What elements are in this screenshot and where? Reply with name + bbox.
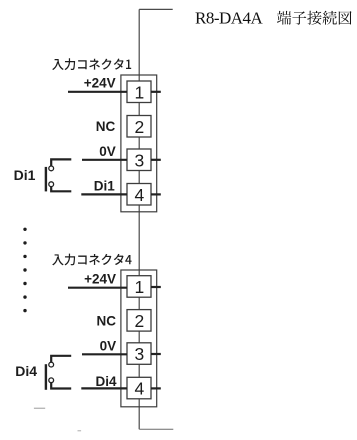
label "入力コネクタ1": [52, 58, 131, 70]
switch contact Di4: upper terminal circle: [49, 362, 54, 367]
svg-text:NC: NC: [96, 119, 116, 134]
svg-text:1: 1: [135, 82, 145, 102]
wire stub right of terminal 3 J4: [151, 353, 161, 355]
svg-text:Di1: Di1: [94, 178, 116, 193]
wire stub right of terminal 4 J4: [151, 387, 161, 389]
svg-text:4: 4: [135, 185, 145, 205]
svg-text:NC: NC: [97, 314, 117, 329]
wire stub right of terminal 3 J1: [151, 159, 161, 161]
wire Di1 to terminal 4 J1: [81, 193, 127, 195]
connector J4 outline: [121, 270, 157, 407]
wire: upper contact arm: [51, 159, 71, 166]
svg-text:1: 1: [135, 277, 145, 297]
terminal 4 of connector J1: [127, 184, 151, 206]
switch contact Di1: lower terminal circle: [49, 182, 54, 187]
scan artifact mark bottom: [78, 430, 82, 431]
switch contact Di4: actuator bar: [45, 364, 47, 390]
continuation dot 7: [23, 309, 26, 312]
label "入力コネクタ4": [52, 254, 131, 266]
svg-text:4: 4: [135, 379, 145, 399]
wire 0V to terminal 3 J1: [82, 159, 127, 161]
wire: lower contact arm: [51, 187, 71, 192]
continuation dot 5: [23, 282, 26, 285]
wire Di4 to terminal 4 J4: [81, 387, 127, 389]
wire: lower contact arm: [51, 383, 71, 389]
wire 0V to terminal 3 J4: [82, 353, 127, 355]
wire +24V to terminal 1 J1: [68, 91, 127, 93]
terminal 2 of connector J4: [127, 310, 151, 332]
wire +24V to terminal 1 J4: [68, 287, 127, 289]
terminal 3 of connector J4: [127, 343, 151, 365]
terminal 3 of connector J1: [127, 149, 151, 171]
wire: top feed horizontal segment: [139, 8, 173, 10]
svg-text:R8-DA4A: R8-DA4A: [195, 9, 264, 28]
svg-text:3: 3: [135, 150, 145, 170]
continuation dot 4: [23, 268, 26, 271]
terminal 1 of connector J4: [127, 276, 151, 298]
svg-text:0V: 0V: [100, 339, 117, 354]
svg-text:2: 2: [135, 311, 145, 331]
switch contact Di1: upper terminal circle: [49, 166, 54, 171]
wire stub right of terminal 1 J1: [151, 91, 161, 93]
continuation dot 2: [23, 241, 26, 244]
switch contact Di1: actuator bar: [45, 167, 47, 192]
wire stub right of terminal 1 J4: [151, 286, 161, 288]
svg-text:3: 3: [135, 344, 145, 364]
terminal 4 of connector J4: [127, 377, 151, 399]
svg-text:+24V: +24V: [84, 272, 116, 287]
scan artifact mark lower-left: [34, 408, 45, 409]
svg-text:2: 2: [135, 117, 145, 137]
svg-text:0V: 0V: [99, 144, 116, 159]
continuation dot 6: [23, 295, 26, 298]
wire: upper contact arm: [51, 356, 71, 362]
svg-text:Di1: Di1: [14, 167, 36, 183]
wire: bottom feed horizontal segment: [139, 428, 173, 430]
wire: vertical bus through both connectors: [138, 9, 140, 429]
wire stub right of terminal 4 J1: [151, 193, 161, 195]
terminal 2 of connector J1: [127, 116, 151, 138]
continuation dot 1: [23, 228, 26, 231]
svg-text:Di4: Di4: [15, 363, 37, 379]
connector J1 outline: [121, 75, 157, 212]
continuation dot 3: [23, 255, 26, 258]
title text "端子接続図" (terminal connection diagram): [277, 11, 352, 25]
svg-text:+24V: +24V: [84, 76, 116, 91]
terminal 1 of connector J1: [127, 81, 151, 103]
switch contact Di4: lower terminal circle: [49, 378, 54, 383]
svg-text:Di4: Di4: [95, 374, 117, 389]
